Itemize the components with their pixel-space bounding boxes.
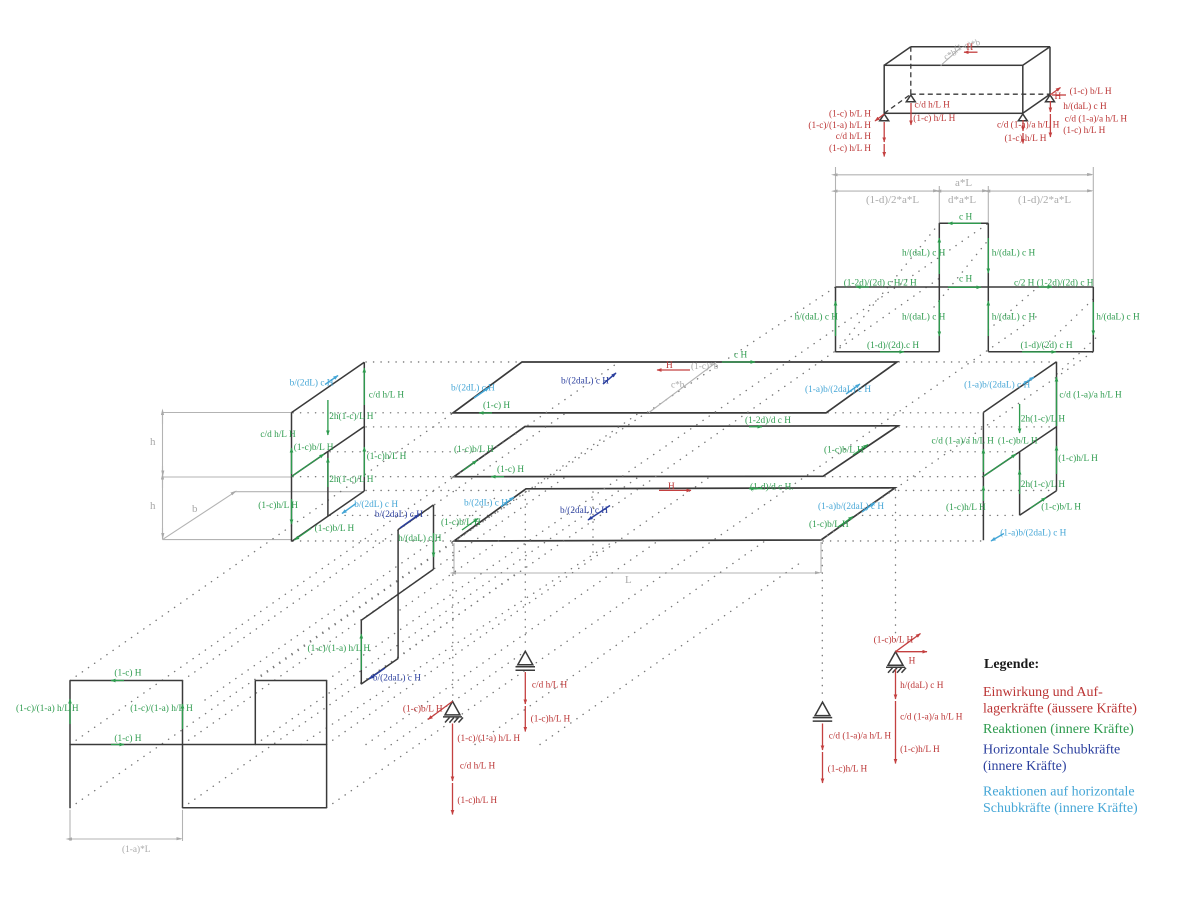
svg-text:b/(2dL) c H: b/(2dL) c H: [354, 499, 398, 510]
svg-text:h: h: [150, 436, 156, 448]
W1 green 2h(1-c)/L H upper: [327, 400, 329, 435]
svg-text:c/d h/L H: c/d h/L H: [532, 681, 568, 691]
ray A2: [70, 477, 454, 745]
ray A5: [183, 477, 567, 745]
svg-text:(1-c) b/L H: (1-c) b/L H: [829, 109, 871, 120]
svg-text:b/(2dL) c H: b/(2dL) c H: [290, 378, 334, 389]
wire vert x525: [524, 492, 526, 647]
P1 gray crack: [649, 363, 716, 413]
svg-text:h: h: [150, 500, 156, 512]
svg-text:b/(2daL) c H: b/(2daL) c H: [373, 673, 421, 684]
svg-text:H: H: [909, 657, 916, 667]
wire vert x453: [452, 545, 454, 697]
svg-text:(1-d)/(2d) c H: (1-d)/(2d) c H: [1021, 340, 1073, 351]
svg-text:(1-a)b/(2daL) c H: (1-a)b/(2daL) c H: [964, 380, 1030, 391]
gray slab depth under plate P3: [454, 542, 821, 573]
svg-text:c/d h/L H: c/d h/L H: [836, 132, 872, 142]
B green pier left upper: [938, 238, 940, 274]
svg-text:c*b: c*b: [671, 381, 685, 391]
svg-text:b/(2daL) c H: b/(2daL) c H: [375, 509, 423, 520]
P1 green (1-c) H: [479, 412, 492, 414]
W4 cyan bottom: [991, 534, 1004, 542]
wall W3 outline: [361, 505, 433, 684]
P3 green (1-d)/d c H: [749, 488, 762, 490]
steep ray St4: [1039, 299, 1093, 352]
svg-text:b/(2dL) c H: b/(2dL) c H: [464, 498, 508, 509]
svg-text:Einwirkung und Auf-: Einwirkung und Auf-: [983, 685, 1103, 700]
svg-text:H: H: [1055, 92, 1062, 102]
wire row y452: [330, 451, 1019, 453]
S1 reaction vertical: [452, 724, 454, 815]
W1 green 2h(1-c)/L H lower: [327, 458, 329, 487]
RA green (1-c) H mid: [111, 744, 124, 746]
svg-text:(1-a)b/(2daL) c H: (1-a)b/(2daL) c H: [805, 384, 871, 395]
svg-text:(1-c)b/L H: (1-c)b/L H: [441, 517, 481, 528]
svg-text:(1-c)h/L H: (1-c)h/L H: [457, 795, 497, 806]
svg-text:(1-c)/(1-a) h/L H: (1-c)/(1-a) h/L H: [130, 703, 193, 714]
ray A6 long: [183, 279, 940, 808]
svg-text:b/(2daL) c H: b/(2daL) c H: [561, 376, 609, 387]
B green c H top: [948, 222, 981, 224]
svg-text:(1-c) H: (1-c) H: [114, 668, 141, 679]
box FBL reaction diagonal: [875, 114, 884, 121]
svg-text:(1-c)b/L H: (1-c)b/L H: [874, 634, 914, 645]
B green right outer vertical: [1092, 302, 1094, 335]
box BBR H force: [1052, 94, 1066, 96]
svg-text:(1-c)b/L H: (1-c)b/L H: [998, 436, 1038, 447]
svg-text:h/(daL) c H: h/(daL) c H: [795, 312, 839, 323]
svg-text:Horizontale Schubkräfte: Horizontale Schubkräfte: [983, 743, 1120, 758]
svg-text:(1-a)*L: (1-a)*L: [122, 844, 151, 855]
box top crack line gray: [941, 47, 962, 65]
elevation rect RC: [183, 681, 327, 808]
box BBR reaction vertical: [1049, 101, 1051, 137]
ray B2: [454, 287, 836, 541]
P2 green right edge: [853, 445, 868, 456]
svg-text:c/2 H (1-2d)/(2d) c H: c/2 H (1-2d)/(2d) c H: [1014, 278, 1094, 289]
W3 blue top: [400, 515, 419, 529]
P1 green c H: [722, 361, 755, 363]
plate P2 middle: [454, 426, 898, 477]
wall W1 outline: [292, 362, 365, 541]
svg-text:(1-d)/d c H.: (1-d)/d c H.: [750, 482, 794, 493]
RA green right edge: [182, 704, 184, 729]
W4 cyan top: [1023, 377, 1034, 384]
P1 cyan right: [846, 384, 860, 394]
box support triangle BBL: [906, 95, 915, 102]
elevation rect RA: [70, 681, 183, 808]
P2 green left edge: [463, 461, 477, 471]
svg-text:H: H: [666, 361, 673, 371]
support S3 roller: [813, 702, 833, 721]
B green pier right lower: [987, 301, 989, 336]
svg-text:h/(daL) c H: h/(daL) c H: [1096, 312, 1140, 323]
svg-text:c/d (1-a)/a h/L H: c/d (1-a)/a h/L H: [1059, 390, 1122, 401]
W4 green (1-c)h/L H right lower: [1056, 446, 1058, 474]
P2 green (1-c) H: [491, 476, 504, 478]
ray C3: [540, 563, 800, 745]
support S2 roller: [516, 651, 536, 670]
ray C4: [366, 541, 658, 745]
S1 reaction diagonal: [428, 701, 453, 719]
RA green (1-c) H top: [111, 680, 124, 682]
svg-text:(1-c) H: (1-c) H: [483, 400, 510, 411]
svg-text:h/(daL) c H: h/(daL) c H: [1063, 101, 1107, 112]
ray C6 from W3: [361, 573, 517, 684]
svg-text:(1-c) H: (1-c) H: [114, 733, 141, 744]
svg-text:Schubkräfte (innere Kräfte): Schubkräfte (innere Kräfte): [983, 801, 1138, 816]
B green pier left lower: [938, 300, 940, 336]
svg-text:h/(daL) c H: h/(daL) c H: [902, 248, 946, 259]
wall W4 mid vertical: [1019, 452, 1021, 515]
svg-text:2h(1-c)/L H: 2h(1-c)/L H: [1021, 479, 1066, 490]
ray A10: [327, 477, 710, 745]
support S1 fixed hinge: [443, 701, 463, 722]
gray volume box left: [163, 413, 365, 540]
P3 cyan left: [501, 497, 514, 507]
ray C2: [475, 541, 765, 745]
W4 green (1-c)h/L H left lower: [982, 486, 984, 501]
svg-text:h/(daL) c H: h/(daL) c H: [992, 248, 1036, 259]
svg-text:(1-c)b/L H: (1-c)b/L H: [809, 519, 849, 530]
svg-text:H: H: [668, 482, 675, 492]
ray A8: [255, 477, 639, 745]
svg-text:h/(daL) c H: h/(daL) c H: [992, 312, 1036, 323]
W4 green 2h(1-c)/L H upper: [1019, 404, 1021, 433]
svg-text:(innere Kräfte): (innere Kräfte): [983, 759, 1067, 774]
box FBR reaction vertical: [1022, 120, 1024, 131]
svg-text:b/(2dL) c H: b/(2dL) c H: [451, 383, 495, 394]
svg-text:(1-d)/2*a*L: (1-d)/2*a*L: [1018, 194, 1071, 206]
W4 green (1-c)b/L H mid diagonal: [983, 454, 1016, 476]
ray C7: [205, 498, 495, 700]
W3 green (1-c)/(1-a) h/L H: [360, 634, 362, 670]
ray A9 long: [327, 223, 989, 680]
wire vert x822: [821, 543, 823, 698]
box support triangle FBR: [1018, 114, 1027, 121]
wire row y477: [293, 476, 452, 478]
plate P1 top: [453, 362, 897, 413]
svg-text:(1-c)b/L H: (1-c)b/L H: [403, 704, 443, 715]
B black outline: [836, 223, 1094, 351]
wire row y541: [293, 540, 452, 542]
S4 action diagonal: [896, 634, 921, 652]
svg-text:c/d (1-a)/a h/L H: c/d (1-a)/a h/L H: [829, 731, 892, 742]
svg-text:(1-c)h/L H: (1-c)h/L H: [900, 744, 940, 755]
box BBL reaction vertical: [910, 103, 912, 125]
svg-text:Legende:: Legende:: [984, 657, 1039, 672]
svg-text:c/d h/L H: c/d h/L H: [915, 101, 951, 111]
box hidden edges dashed: [884, 47, 1050, 114]
svg-text:c H: c H: [959, 213, 972, 223]
support S4 fixed hinge: [886, 652, 906, 673]
svg-text:(1-2d)/d c H: (1-2d)/d c H: [745, 415, 791, 426]
W1 cyan top: [325, 376, 338, 385]
svg-text:(1-c)b/L H: (1-c)b/L H: [454, 444, 494, 455]
B green bottom left arrow: [880, 351, 904, 353]
ray A4: [183, 413, 567, 681]
svg-text:(1-c)/(1-a) h/L H: (1-c)/(1-a) h/L H: [308, 643, 371, 654]
svg-text:(1-c) b/L H: (1-c) b/L H: [1070, 86, 1112, 97]
svg-text:(1-a)b/(2daL) c H: (1-a)b/(2daL) c H: [818, 501, 884, 512]
ray C5 through S1: [385, 651, 525, 749]
wire row y427: [366, 426, 523, 428]
svg-text:(1-c)/(1-a) h/L H: (1-c)/(1-a) h/L H: [808, 120, 871, 131]
S4 reaction vertical: [895, 669, 897, 763]
ray C1: [301, 541, 614, 745]
B gray dimension frame: [836, 167, 1094, 287]
svg-text:2h(1-c)/L H: 2h(1-c)/L H: [1021, 414, 1066, 425]
P3 force H red: [659, 489, 691, 491]
box support triangle BBR: [1046, 95, 1055, 102]
svg-text:c/d h/L H: c/d h/L H: [260, 430, 296, 440]
svg-text:(1-c)b/L H: (1-c)b/L H: [1041, 502, 1081, 513]
svg-text:c/d (1-a)/a h/L H: c/d (1-a)/a h/L H: [1065, 114, 1128, 125]
svg-text:(1-c)h/L H: (1-c)h/L H: [828, 763, 868, 774]
svg-text:(1-c)h/L H: (1-c)h/L H: [531, 713, 571, 724]
force H on box top: [964, 51, 978, 53]
svg-text:d*a*L: d*a*L: [948, 194, 976, 206]
W4 green (1-c)b/L H bottom diagonal: [1030, 498, 1046, 509]
svg-text:(1-c)h/L H: (1-c)h/L H: [946, 502, 986, 513]
wire row y413: [293, 412, 451, 414]
svg-text:(1-c)h/L H: (1-c)h/L H: [1058, 453, 1098, 464]
svg-text:(1-c)*b: (1-c)*b: [691, 361, 719, 372]
steep ray St2: [934, 240, 988, 307]
box FBL reaction vertical: [883, 122, 885, 157]
svg-text:(1-c) h/L H: (1-c) h/L H: [1005, 133, 1047, 144]
svg-text:(1-d)/2*a*L: (1-d)/2*a*L: [866, 194, 919, 206]
W4 green 2h(1-c)/L H lower: [1019, 470, 1021, 494]
P1 blue shear: [603, 373, 616, 384]
P3 cyan right: [862, 503, 875, 513]
svg-text:c/d h/L H: c/d h/L H: [460, 761, 496, 771]
ray A11 long: [327, 314, 1040, 808]
plate P3 bottom: [454, 488, 895, 541]
P3 green left edge: [462, 519, 478, 531]
W3 cyan arrow: [342, 504, 356, 514]
svg-text:h/(daL) c H: h/(daL) c H: [900, 680, 944, 691]
svg-text:c/d (1-a)/a h/L H: c/d (1-a)/a h/L H: [900, 712, 963, 723]
wire row y515: [330, 514, 1019, 516]
svg-text:(1-c) h/L H: (1-c) h/L H: [1063, 125, 1105, 136]
wire vert x593: [592, 492, 594, 558]
W3 green h/(daL) c H: [433, 533, 435, 557]
svg-text:(1-c) H: (1-c) H: [497, 464, 524, 475]
wall W2 mid vertical: [327, 452, 329, 516]
W1 green (1-c)b/L H mid diagonal: [292, 454, 325, 477]
svg-text:lagerkräfte (äussere Kräfte): lagerkräfte (äussere Kräfte): [983, 702, 1137, 717]
svg-text:(1-c)/(1-a) h/L H: (1-c)/(1-a) h/L H: [457, 733, 520, 744]
wire vert x895: [895, 490, 897, 645]
wire row y362: [366, 361, 520, 363]
wire row y490: [366, 490, 1056, 492]
box solid edges: [884, 47, 1050, 114]
W1 green (1-c)h/L H right lower: [363, 447, 365, 477]
W1 green (1-c)b/L H bottom diagonal: [295, 529, 312, 541]
S4 H force: [896, 651, 928, 653]
svg-text:(1-c) h/L H: (1-c) h/L H: [913, 113, 955, 124]
svg-text:(1-a)b/(2daL) c H: (1-a)b/(2daL) c H: [1000, 527, 1066, 538]
svg-text:(1-c) h/L H: (1-c) h/L H: [829, 143, 871, 154]
ray A3: [70, 541, 454, 808]
svg-text:(1-c)b/L H: (1-c)b/L H: [315, 523, 355, 534]
svg-text:(1-c)/(1-a) h/L H: (1-c)/(1-a) h/L H: [16, 703, 79, 714]
svg-text:(1-c)h/L H: (1-c)h/L H: [367, 451, 407, 462]
P3 blue shear: [588, 506, 610, 521]
svg-text:2h(1-c)/L H: 2h(1-c)/L H: [329, 474, 374, 485]
svg-text:Reaktionen (innere Kräfte): Reaktionen (innere Kräfte): [983, 722, 1134, 737]
box support triangle FBL: [880, 114, 889, 121]
W1 green c/d h/L H right: [363, 368, 365, 405]
W4 green c/d (1-a)/a h/L H right: [1056, 377, 1058, 426]
W1 green c/d h/L H left: [291, 448, 293, 474]
svg-text:(1-c)b/L H: (1-c)b/L H: [294, 442, 334, 453]
svg-text:Reaktionen auf horizontale: Reaktionen auf horizontale: [983, 785, 1135, 800]
svg-text:L: L: [625, 574, 632, 586]
svg-text:b/(2daL) c H: b/(2daL) c H: [560, 505, 608, 516]
svg-text:h/(daL) c H: h/(daL) c H: [902, 312, 946, 323]
W4 green c/d (1-a)/a h/L H left: [982, 449, 984, 472]
box BBR reaction diagonal: [1050, 88, 1061, 96]
W1 green (1-c)h/L H left lower: [291, 499, 293, 524]
wall W4 outline: [983, 362, 1056, 541]
RA green left edge: [69, 699, 71, 724]
svg-text:h/(daL) c H: h/(daL) c H: [398, 533, 442, 544]
S2 reaction vertical: [524, 672, 526, 732]
P1 force H red: [657, 369, 690, 371]
elevation rect RB: [255, 681, 326, 745]
svg-text:(1-c)b/L H: (1-c)b/L H: [824, 444, 864, 455]
ray B3: [454, 362, 619, 477]
svg-text:c/d h/L H: c/d h/L H: [369, 391, 405, 401]
S3 reaction vertical: [822, 724, 824, 784]
ray B1 right: [821, 352, 1093, 540]
ray C8: [400, 533, 510, 610]
P2 green (1-2d)/d c H: [749, 426, 762, 428]
svg-text:c/d (1-a)/a h/L H: c/d (1-a)/a h/L H: [932, 436, 995, 447]
svg-text:(1-2d)/(2d) c H/2 H: (1-2d)/(2d) c H/2 H: [844, 278, 917, 289]
svg-text:b: b: [192, 503, 198, 515]
svg-text:c H: c H: [734, 351, 747, 361]
B green arrows on main line: [856, 286, 1052, 288]
ray A7: [255, 413, 639, 681]
B green bottom right arrow: [1022, 351, 1056, 353]
svg-text:2h(1-c)/L H: 2h(1-c)/L H: [329, 411, 374, 422]
P3 green right edge: [838, 517, 853, 528]
ray B1b short: [1057, 335, 1099, 374]
P1 cyan shear left: [474, 388, 489, 399]
ray A1: [70, 413, 453, 681]
svg-text:c H: c H: [959, 275, 972, 285]
elevation mid line: [70, 744, 327, 746]
svg-text:H: H: [967, 43, 974, 53]
W3 blue bottom: [369, 668, 385, 679]
B green left outer vertical: [835, 301, 837, 336]
steep ray St3: [988, 287, 1038, 330]
svg-text:(1-c)h/L H: (1-c)h/L H: [258, 500, 298, 511]
B green pier right upper: [987, 238, 989, 273]
svg-text:a*L: a*L: [955, 177, 972, 189]
steep ray St1: [836, 223, 940, 351]
gray dimension (1-a)*L: [70, 810, 183, 841]
svg-text:(1-d)/(2d).c H: (1-d)/(2d).c H: [867, 340, 919, 351]
